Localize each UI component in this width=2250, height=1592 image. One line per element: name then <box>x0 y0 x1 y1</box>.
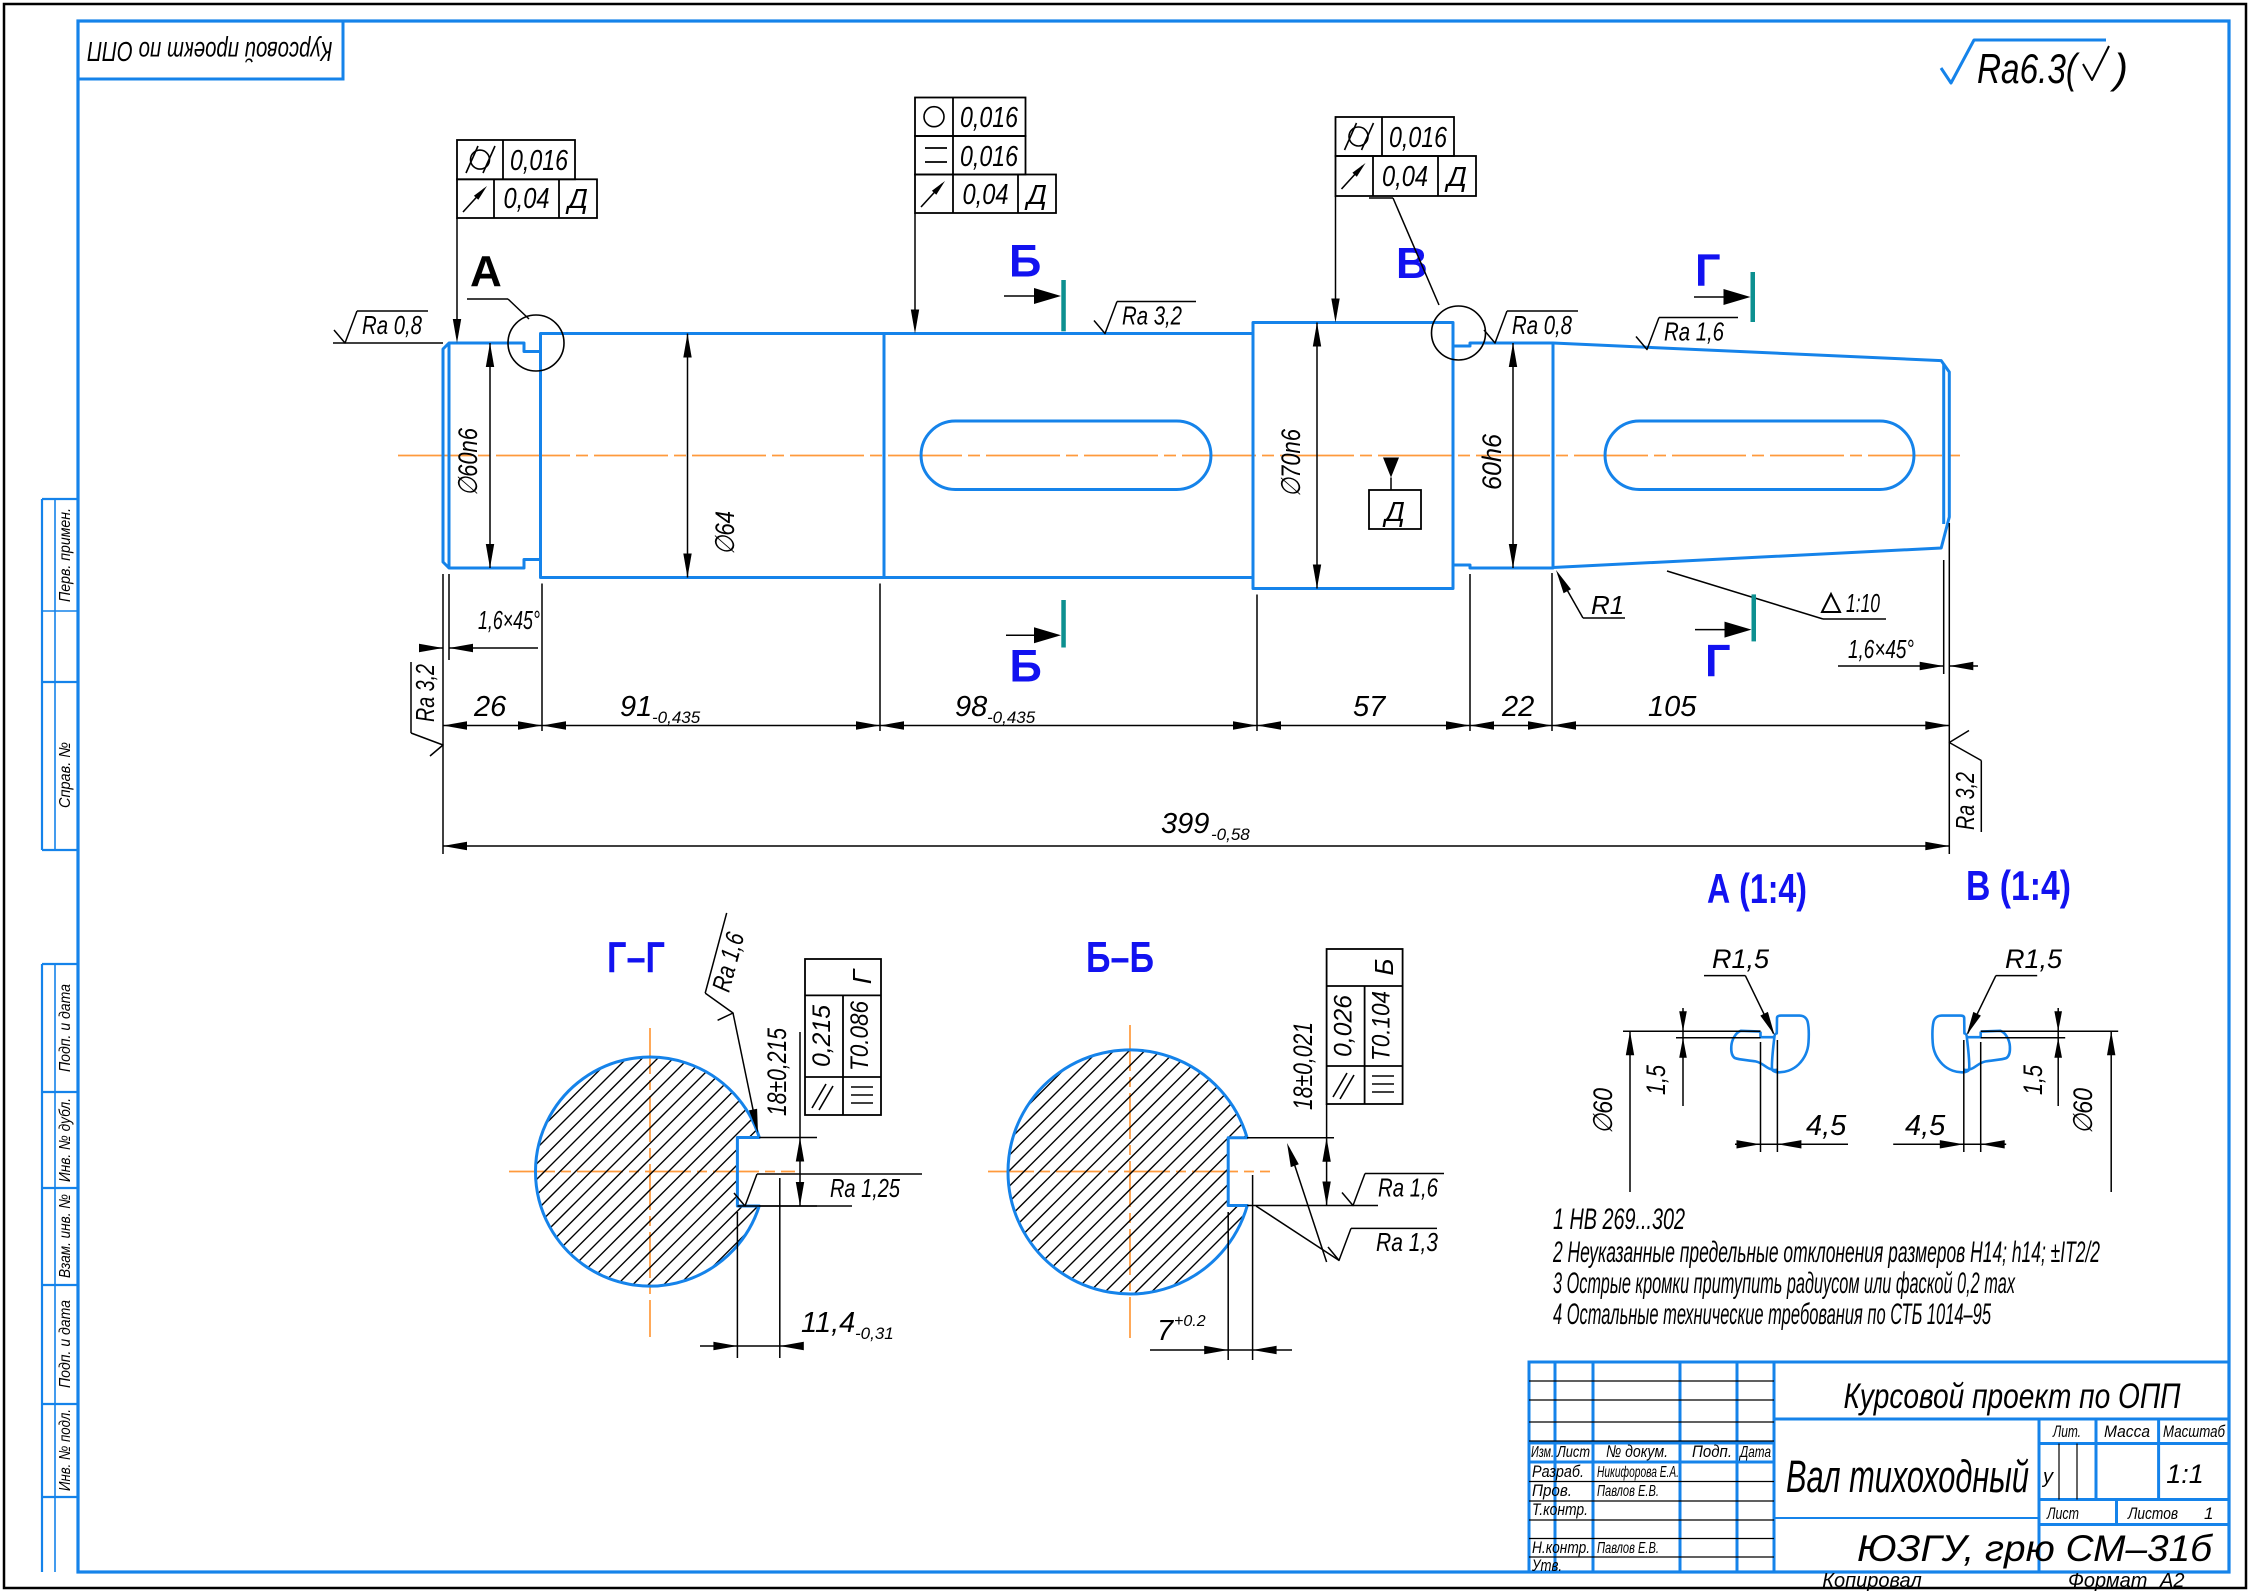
section marker Г bottom arrow <box>1695 629 1747 631</box>
svg-text:1 НВ 269...302: 1 НВ 269...302 <box>1553 1203 1685 1236</box>
section Г-Г roughness Ra 1,25 <box>737 1205 852 1207</box>
svg-text:Подп. и дата: Подп. и дата <box>57 1300 74 1388</box>
svg-text:В: В <box>1396 239 1428 288</box>
section marker Б top arrow <box>1004 295 1056 297</box>
svg-text:91: 91 <box>620 691 652 723</box>
svg-text:4,5: 4,5 <box>1905 1110 1946 1142</box>
svg-text:1,5: 1,5 <box>1641 1064 1671 1095</box>
shaft outline <box>443 323 1949 589</box>
svg-text:Изм.: Изм. <box>1531 1444 1554 1461</box>
dimension 57 <box>1257 725 1470 727</box>
detail shoulder lobe <box>1932 1016 1969 1073</box>
left margin strip lower <box>41 964 43 1572</box>
svg-text:0,04: 0,04 <box>1382 161 1428 193</box>
detail view B mirrored geometry <box>1893 976 2118 1192</box>
section boundary line <box>883 334 886 578</box>
svg-text:1,5: 1,5 <box>2018 1064 2048 1095</box>
svg-text:Масштаб: Масштаб <box>2163 1422 2226 1441</box>
detail dim 1,5 line <box>2057 1008 2059 1106</box>
svg-text:0,016: 0,016 <box>960 141 1019 173</box>
svg-text:-0,31: -0,31 <box>855 1324 894 1343</box>
detail groove seat <box>1968 1032 1981 1038</box>
roughness Ra 0,8 journal <box>334 311 357 343</box>
svg-text:105: 105 <box>1648 691 1697 723</box>
svg-text:Никифорова Е.А.: Никифорова Е.А. <box>1597 1464 1679 1481</box>
section Б-Б roughness Ra 1,3 <box>1256 1206 1339 1260</box>
svg-text:Курсовой проект по ОПП: Курсовой проект по ОПП <box>1844 1377 2182 1416</box>
extension lines for length dimensions <box>442 574 444 854</box>
svg-text:Д: Д <box>565 183 588 214</box>
svg-text:Г: Г <box>1705 636 1731 687</box>
svg-text:А (1:4): А (1:4) <box>1707 865 1807 912</box>
dimension 60h6 <box>1512 343 1514 568</box>
detail dim 4,5 lines <box>1980 1042 1982 1152</box>
svg-text:Подп. и дата: Подп. и дата <box>57 984 74 1072</box>
detail dim 4,5 lines <box>1760 1042 1762 1152</box>
roughness Ra 3,2 right rotated <box>1949 731 1981 761</box>
dimension 22 <box>1470 725 1552 727</box>
svg-text:Б: Б <box>1369 958 1399 975</box>
FCF middle roundness 0,016 <box>915 98 1026 137</box>
svg-text:Ra 1,6: Ra 1,6 <box>1378 1173 1438 1203</box>
svg-text:-0,435: -0,435 <box>652 708 701 727</box>
svg-text:Г: Г <box>1695 245 1721 296</box>
dimension 105 <box>1552 725 1949 727</box>
section marker Б top bar <box>1061 280 1066 331</box>
svg-text:Ra 0,8: Ra 0,8 <box>362 310 422 340</box>
section Б-Б outline <box>1008 1050 1247 1294</box>
svg-text:Ra 3,2: Ra 3,2 <box>1950 772 1980 830</box>
title block thin row lines <box>1529 1380 1774 1382</box>
leader R1 <box>1583 617 1625 619</box>
detail leader R1,5 <box>1704 975 1745 977</box>
svg-text:Справ. №: Справ. № <box>57 742 74 808</box>
svg-text:Листов: Листов <box>2127 1504 2178 1523</box>
svg-text:Д: Д <box>1024 179 1047 210</box>
FCF middle runout 0,04 Д <box>915 175 1056 214</box>
svg-text:3 Острые кромки притупить ради: 3 Острые кромки притупить радиусом или ф… <box>1553 1267 2016 1300</box>
roughness Ra 0,8 neck <box>1484 311 1507 343</box>
shaft centerline <box>398 455 1965 457</box>
FCF left runout 0,04 Д <box>457 179 597 218</box>
dimension 98-0,435 <box>880 725 1257 727</box>
shoulder face line <box>539 334 542 578</box>
svg-text:Курсовой проект по ОПП: Курсовой проект по ОПП <box>87 36 333 67</box>
svg-text:Н.контр.: Н.контр. <box>1532 1538 1590 1557</box>
svg-text:Ra 3,2: Ra 3,2 <box>1122 301 1182 331</box>
taper shoulder line <box>1552 344 1555 567</box>
svg-text:Лит.: Лит. <box>2052 1422 2081 1441</box>
chamfer dimension 1,6x45 right <box>1943 560 1945 674</box>
svg-text:-0,435: -0,435 <box>987 708 1036 727</box>
svg-text:Формат: Формат <box>2068 1570 2147 1592</box>
svg-text:ЮЗГУ, грю СМ–31б: ЮЗГУ, грю СМ–31б <box>1857 1528 2213 1569</box>
svg-text:Д: Д <box>1444 161 1467 192</box>
top-left turned stamp box <box>78 21 343 79</box>
collar left face <box>1252 323 1255 589</box>
collar right face <box>1452 323 1455 589</box>
svg-text:1:10: 1:10 <box>1846 588 1880 618</box>
svg-text:18±0,021: 18±0,021 <box>1288 1022 1318 1110</box>
svg-text:26: 26 <box>473 691 507 723</box>
FCF middle straightness 0,016 <box>915 136 1026 175</box>
svg-text:Г: Г <box>847 968 877 984</box>
dimension 26 <box>443 725 542 727</box>
svg-text:∅64: ∅64 <box>710 511 740 555</box>
svg-text:0,016: 0,016 <box>960 102 1019 134</box>
detail shoulder lobe <box>1772 1016 1809 1073</box>
title block frame <box>1529 1362 2229 1572</box>
svg-text:60h6: 60h6 <box>1477 433 1507 490</box>
svg-text:Ra 1,3: Ra 1,3 <box>1376 1227 1438 1257</box>
svg-text:Т0.104: Т0.104 <box>1368 991 1396 1061</box>
detail extension lines <box>1623 1030 1761 1032</box>
svg-text:0,026: 0,026 <box>1330 995 1358 1057</box>
svg-text:Т0.086: Т0.086 <box>846 1001 874 1071</box>
svg-text:Вал тихоходный: Вал тихоходный <box>1786 1451 2029 1502</box>
dimension 399-0,58 <box>443 845 1949 847</box>
svg-text:Инв. № дубл.: Инв. № дубл. <box>57 1098 74 1182</box>
dimension Ø70n6 <box>1316 323 1318 589</box>
section Б-Б roughness Ra 1,6 <box>1342 1174 1365 1206</box>
roughness Ra 3,2 left rotated <box>411 662 443 756</box>
section Б-Б dim 18±0,021 <box>1247 1137 1334 1139</box>
svg-text:22: 22 <box>1501 691 1534 723</box>
svg-text:Ra 3,2: Ra 3,2 <box>410 664 440 722</box>
FCF right cylindricity 0,016 <box>1336 117 1455 156</box>
svg-text:Ra6.3(: Ra6.3( <box>1977 45 2080 92</box>
svg-text:4,5: 4,5 <box>1806 1110 1847 1142</box>
svg-text:0,215: 0,215 <box>808 1005 836 1067</box>
svg-text:7: 7 <box>1157 1315 1175 1347</box>
svg-text:0,016: 0,016 <box>1389 122 1448 154</box>
section Б-Б leader arrow <box>1289 1148 1327 1262</box>
svg-text:R1,5: R1,5 <box>1712 944 1770 974</box>
end chamfer edge line <box>1942 364 1945 525</box>
section Г-Г centerlines <box>509 1171 795 1173</box>
svg-text:0,016: 0,016 <box>510 145 569 177</box>
section Г-Г FCF <box>805 959 881 1115</box>
svg-text:∅60n6: ∅60n6 <box>453 427 483 496</box>
dimension Ø64 <box>687 334 689 578</box>
section marker Г top arrow <box>1694 296 1746 298</box>
svg-text:4 Остальные технические требов: 4 Остальные технические требования по СТ… <box>1553 1298 1991 1331</box>
top corner general roughness mark <box>1941 40 2106 83</box>
detail dim Ø60 line <box>2110 1031 2112 1192</box>
dimension 91-0,435 <box>542 725 880 727</box>
svg-text:Перв. примен.: Перв. примен. <box>57 508 74 602</box>
svg-text:11,4: 11,4 <box>801 1307 855 1339</box>
FCF left cylindricity 0,016 <box>457 140 575 179</box>
svg-text:Б: Б <box>1010 641 1042 692</box>
section marker Б bottom arrow <box>1006 634 1056 636</box>
svg-text:R1,5: R1,5 <box>2005 944 2063 974</box>
keyway slot 2 (taper) <box>1605 421 1914 490</box>
roughness Ra 1,6 taper <box>1636 318 1659 350</box>
datum triangle Д <box>1383 458 1399 478</box>
detail groove seat <box>1761 1032 1774 1038</box>
svg-text:R1: R1 <box>1591 590 1624 620</box>
svg-text:0,04: 0,04 <box>963 179 1009 211</box>
section marker Б bottom bar <box>1061 600 1066 648</box>
detail callout A circle <box>508 315 564 371</box>
svg-text:1,6×45°: 1,6×45° <box>1848 634 1914 664</box>
taper note 1:10 <box>1823 618 1886 620</box>
detail leader R1,5 <box>1996 975 2037 977</box>
svg-text:Масса: Масса <box>2104 1422 2150 1441</box>
svg-text:2 Неуказанные предельные откло: 2 Неуказанные предельные отклонения разм… <box>1552 1236 2100 1269</box>
section Г-Г roughness Ra 1,6 rotated <box>698 913 757 1024</box>
svg-text:Ra 0,8: Ra 0,8 <box>1512 310 1572 340</box>
section marker Г bottom bar <box>1752 594 1757 641</box>
svg-text:Павлов Е.В.: Павлов Е.В. <box>1597 1540 1659 1557</box>
svg-text:18±0,215: 18±0,215 <box>762 1027 792 1116</box>
svg-text:∅70n6: ∅70n6 <box>1276 428 1306 497</box>
FCF middle leader <box>914 213 916 326</box>
roughness Ra 3,2 top <box>1094 302 1117 334</box>
svg-text:399: 399 <box>1161 808 1209 840</box>
svg-text:-0,58: -0,58 <box>1211 825 1250 844</box>
detail callout B leader <box>1369 197 1393 199</box>
detail groove left profile <box>1963 1031 2010 1070</box>
svg-text:Павлов Е.В.: Павлов Е.В. <box>1597 1483 1659 1500</box>
svg-text:Пров.: Пров. <box>1532 1481 1572 1500</box>
section Б-Б FCF <box>1327 949 1403 1104</box>
section marker Г top bar <box>1751 272 1756 322</box>
svg-text:Подп.: Подп. <box>1692 1442 1732 1461</box>
svg-text:Б: Б <box>1009 236 1041 287</box>
svg-text:1: 1 <box>2204 1504 2213 1523</box>
svg-text:∅60: ∅60 <box>1588 1088 1618 1134</box>
section Г-Г outline <box>535 1057 759 1286</box>
svg-text:∅60: ∅60 <box>2068 1088 2098 1134</box>
FCF left leader <box>456 218 458 335</box>
section Г-Г dim 11,4-0,31 <box>736 1212 738 1358</box>
chamfer dimension 1,6x45 left <box>448 574 450 660</box>
svg-text:Т.контр.: Т.контр. <box>1532 1500 1588 1519</box>
detail callout B circle <box>1432 306 1486 360</box>
svg-text:1,6×45°: 1,6×45° <box>478 605 540 635</box>
svg-text:Ra 1,25: Ra 1,25 <box>830 1173 900 1203</box>
chamfer edge line left <box>448 343 451 568</box>
svg-text:А2: А2 <box>2159 1570 2184 1592</box>
svg-text:Лист: Лист <box>1556 1444 1590 1461</box>
svg-text:57: 57 <box>1353 691 1387 723</box>
section Б-Б dim 7+0.2 <box>1227 1212 1229 1360</box>
section Б-Б centerlines <box>988 1171 1270 1173</box>
svg-text:0,04: 0,04 <box>504 183 550 215</box>
detail dim Ø60 line <box>1629 1031 1631 1192</box>
svg-text:98: 98 <box>955 691 987 723</box>
svg-text:№ докум.: № докум. <box>1606 1442 1668 1461</box>
FCF right leader <box>1335 196 1337 315</box>
FCF right runout 0,04 Д <box>1336 156 1477 196</box>
svg-text:Г–Г: Г–Г <box>607 933 665 982</box>
left margin strip upper <box>41 499 43 850</box>
svg-text:Лист: Лист <box>2046 1504 2079 1523</box>
svg-text:Д: Д <box>1382 496 1405 527</box>
svg-text:Утв.: Утв. <box>1531 1556 1562 1575</box>
svg-text:1:1: 1:1 <box>2166 1459 2204 1489</box>
dimension Ø60n6 <box>489 343 491 568</box>
svg-text:+0.2: +0.2 <box>1174 1313 1206 1330</box>
section Г-Г dim 18±0,215 <box>759 1137 817 1139</box>
detail callout A leader <box>467 298 508 300</box>
keyway slot 1 <box>921 421 1211 490</box>
detail groove left profile <box>1731 1031 1778 1070</box>
svg-text:Ra 1,6: Ra 1,6 <box>1664 317 1724 347</box>
detail extension lines <box>1981 1030 2119 1032</box>
svg-text:Взам. инв. №: Взам. инв. № <box>57 1194 74 1278</box>
svg-text:Разраб.: Разраб. <box>1532 1462 1584 1481</box>
svg-text:А: А <box>470 247 502 296</box>
svg-text:Копировал: Копировал <box>1822 1570 1921 1592</box>
surface line extension left journal <box>333 342 443 344</box>
svg-text:В (1:4): В (1:4) <box>1966 862 2071 909</box>
detail dim 1,5 line <box>1682 1008 1684 1106</box>
svg-text:Дата: Дата <box>1739 1444 1772 1461</box>
svg-text:Инв. № подл.: Инв. № подл. <box>57 1409 74 1491</box>
svg-text:Б–Б: Б–Б <box>1086 933 1154 982</box>
svg-text:у: у <box>2041 1466 2054 1488</box>
